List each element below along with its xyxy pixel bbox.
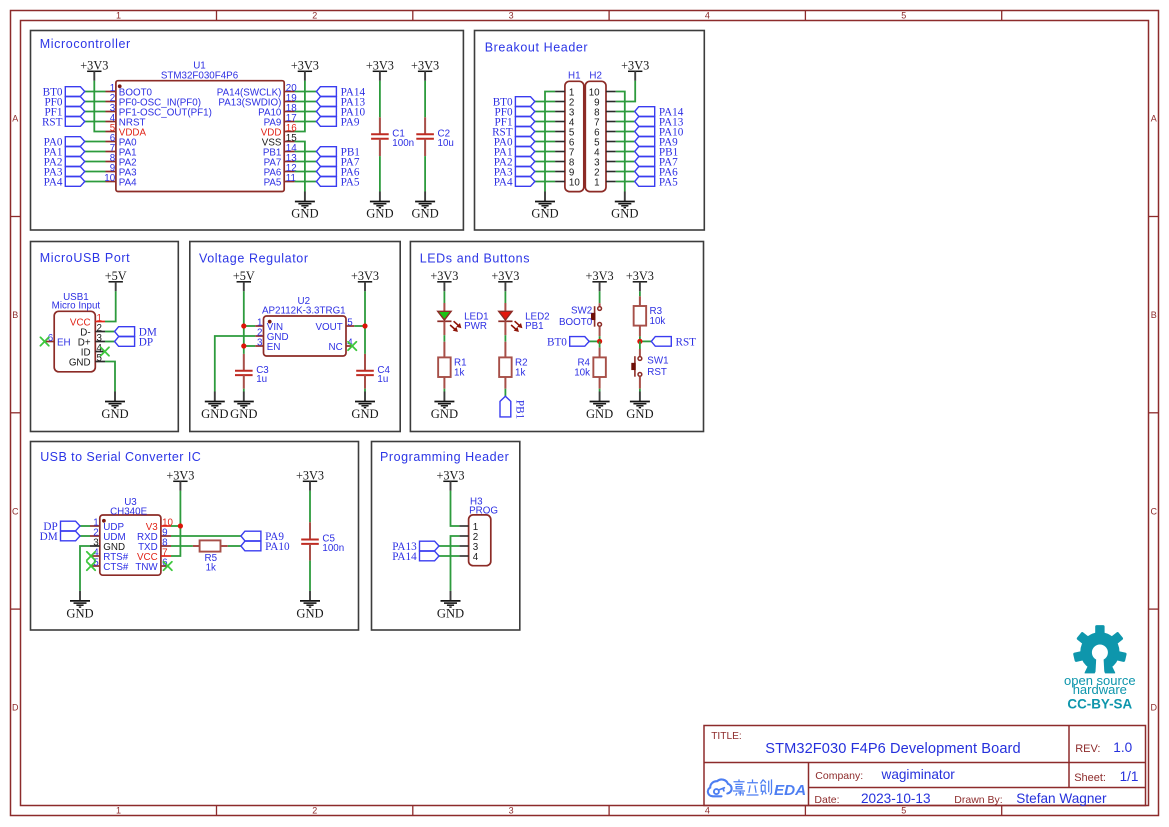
wire DM flag to U3 UDM xyxy=(80,535,90,537)
USB1 pin 2 D- xyxy=(80,323,105,339)
frame column numbers bottom xyxy=(116,806,906,816)
node PA7 port flag xyxy=(635,157,678,169)
svg-text:PA9: PA9 xyxy=(341,117,360,129)
svg-text:10k: 10k xyxy=(650,316,666,327)
node DP port flag xyxy=(115,337,154,349)
wire BT0 flag to U1 xyxy=(85,91,106,93)
sheet title text xyxy=(765,741,1020,757)
wire C2 to ground xyxy=(424,156,426,191)
section box USB to Serial Converter IC xyxy=(31,442,359,631)
svg-text:PA10: PA10 xyxy=(265,541,290,553)
node PA10 port flag xyxy=(241,541,290,553)
junction at VIN xyxy=(241,323,246,328)
USB1 pin 1 VCC xyxy=(70,313,105,329)
svg-text:PA5: PA5 xyxy=(264,178,282,189)
svg-text:H2: H2 xyxy=(589,70,602,81)
node PA9 port flag xyxy=(316,117,359,129)
svg-text:GND: GND xyxy=(201,407,228,421)
svg-text:LEDs and Buttons: LEDs and Buttons xyxy=(420,251,530,265)
svg-text:CH340E: CH340E xyxy=(110,506,147,517)
svg-text:5: 5 xyxy=(901,806,906,816)
U1 pin 6 PA0 xyxy=(106,133,138,149)
ground below H3 xyxy=(437,591,464,621)
U1 pin 16 VDD xyxy=(261,123,298,139)
node PA9 port flag xyxy=(241,531,284,543)
U3 pin 3 GND xyxy=(90,537,125,553)
U3 pin 2 UDM xyxy=(90,527,126,543)
wire H2 to PA5 flag xyxy=(616,181,635,183)
ground below C2 xyxy=(411,192,438,221)
svg-text:1k: 1k xyxy=(206,563,216,574)
svg-text:+5V: +5V xyxy=(105,269,127,283)
svg-text:H1: H1 xyxy=(568,70,581,81)
section box LEDs and Buttons xyxy=(410,242,703,432)
connector H2 xyxy=(585,70,616,191)
wire RST flag to H1 xyxy=(535,131,555,133)
svg-text:PA5: PA5 xyxy=(341,177,360,189)
wire +3V3 rail to V3 and VCC xyxy=(171,491,180,556)
svg-text:1: 1 xyxy=(116,806,121,816)
wire U1 to PA13 flag xyxy=(295,101,317,103)
node PF1 port flag xyxy=(495,117,535,129)
svg-text:RST: RST xyxy=(42,117,63,129)
wire U1 to PA9 flag xyxy=(295,121,317,123)
node PA14 port flag xyxy=(635,107,684,119)
SW2 top lead xyxy=(599,303,601,306)
power +3V3 (LED2) xyxy=(491,269,519,291)
svg-text:2: 2 xyxy=(312,10,317,20)
U1 pin 17 PA9 xyxy=(264,113,297,129)
wire R2 to PB1 flag xyxy=(504,389,506,397)
wire LED1 to R1 xyxy=(443,335,445,342)
connector H3 PROG xyxy=(459,497,498,566)
wire H2 to PA14 flag xyxy=(616,111,635,113)
svg-text:5: 5 xyxy=(347,317,353,328)
wire U1 to PB1 flag xyxy=(295,151,317,153)
wire +3V3 to C2 xyxy=(424,81,426,118)
switch SW1 RST xyxy=(631,356,668,378)
wire PA0 flag to H1 xyxy=(535,141,555,143)
R1 bottom lead xyxy=(443,377,445,389)
wire H2 to PB1 flag xyxy=(616,151,635,153)
U2 pin 3 EN xyxy=(255,337,280,353)
svg-text:Microcontroller: Microcontroller xyxy=(40,37,131,51)
section box MicroUSB Port xyxy=(31,242,179,432)
title block frame xyxy=(704,726,1146,806)
USB1 pin 3 D+ xyxy=(78,333,105,349)
section box Breakout Header xyxy=(475,31,705,231)
svg-text:C: C xyxy=(12,506,19,516)
node DM port flag xyxy=(40,531,80,543)
node BT0 port flag xyxy=(493,97,535,109)
node PA9 port flag xyxy=(635,137,678,149)
wire BT0 flag to junction xyxy=(589,340,599,342)
U2 pin 1 VIN xyxy=(255,317,283,333)
power +3V3 (H2 pin9) xyxy=(621,58,649,80)
Company label and value xyxy=(815,767,955,782)
wire +3V3 to U1 pin16 VDD xyxy=(295,81,305,132)
wire DP flag to U3 UDP xyxy=(80,525,90,527)
wire PA0 flag to U1 xyxy=(85,141,106,143)
ground below C1 xyxy=(366,192,393,221)
svg-text:+3V3: +3V3 xyxy=(621,58,649,72)
resistor R5 1k (horizontal) xyxy=(193,540,228,573)
resistor R3 10k xyxy=(639,296,641,306)
U2 pin 2 GND xyxy=(255,327,288,343)
wire junction to RST flag xyxy=(640,340,651,342)
wire PF1 flag to U1 xyxy=(85,111,106,113)
USB1 pin 6 EH xyxy=(45,333,71,349)
svg-text:GND: GND xyxy=(351,407,378,421)
U1 pin 3 PF1-OSC_OUT(PF1) xyxy=(106,103,212,119)
wire PF0 flag to U1 xyxy=(85,101,106,103)
U1 pin 9 PA3 xyxy=(106,163,138,179)
wire H1 pin1 to ground rail xyxy=(545,92,555,192)
power +3V3 (LED1) xyxy=(430,269,458,291)
SW2 bottom lead xyxy=(599,327,601,337)
svg-text:PB1: PB1 xyxy=(525,321,544,332)
U3 pin 6 TNW xyxy=(135,557,168,573)
svg-text:B: B xyxy=(12,310,18,320)
svg-text:10k: 10k xyxy=(574,367,590,378)
power +3V3 (U1 VDDA) xyxy=(80,58,108,80)
U3 pin 5 CTS# xyxy=(91,557,129,573)
svg-text:SW1: SW1 xyxy=(647,356,668,367)
power +3V3 (C2) xyxy=(411,58,439,80)
node BT0 port flag xyxy=(547,337,589,349)
U3 TNW no-connect X xyxy=(164,562,172,570)
node PA14 port flag xyxy=(392,551,439,563)
op-amp U3 body CH340E xyxy=(100,497,161,575)
node PA3 port flag xyxy=(494,167,535,179)
switch SW2 BOOT0 xyxy=(559,306,602,328)
svg-text:4: 4 xyxy=(473,552,479,563)
U3 CTS# no-connect X xyxy=(87,562,95,570)
capacitor C2 10u xyxy=(416,117,454,156)
node PA13 port flag xyxy=(316,97,365,109)
ground below H2 xyxy=(611,192,638,221)
LED2 cathode lead xyxy=(504,321,506,335)
svg-text:11: 11 xyxy=(286,173,296,184)
svg-text:1: 1 xyxy=(594,178,599,189)
node PA2 port flag xyxy=(494,157,535,169)
svg-text:Programming Header: Programming Header xyxy=(380,450,509,464)
ground left of C3 xyxy=(201,392,228,421)
svg-text:BOOT0: BOOT0 xyxy=(559,317,593,328)
section box Programming Header xyxy=(372,442,520,631)
U1 pin 10 PA4 xyxy=(104,173,137,189)
svg-text:+3V3: +3V3 xyxy=(166,468,194,482)
U3 pin 1 UDP xyxy=(90,517,124,533)
junction at VOUT xyxy=(362,323,367,328)
wire H2 to PA10 flag xyxy=(616,131,635,133)
wire PA4 flag to U1 xyxy=(85,181,106,183)
U1 pin 4 NRST xyxy=(106,113,146,129)
svg-text:Breakout Header: Breakout Header xyxy=(485,40,589,54)
wire PA2 flag to U1 xyxy=(85,161,106,163)
frame row letters right xyxy=(1151,114,1158,713)
ground below R1 xyxy=(431,392,458,421)
node DP port flag xyxy=(43,521,80,533)
resistor R1 1k xyxy=(443,342,445,358)
U3 pin 7 VCC xyxy=(137,547,171,563)
wire U1 to PA6 flag xyxy=(295,171,317,173)
svg-text:GND: GND xyxy=(291,207,318,221)
wire U1 to PA5 flag xyxy=(295,181,317,183)
USB1 pin 4 ID no-connect X xyxy=(101,347,109,355)
op-amp U2 body AP2112K-3.3TRG1 xyxy=(262,296,346,356)
wire PA1 flag to H1 xyxy=(535,151,555,153)
Date label and value xyxy=(814,791,930,806)
svg-text:PA4: PA4 xyxy=(494,177,513,189)
LED LED2 PB1 (red) xyxy=(504,303,506,311)
svg-text:2023-10-13: 2023-10-13 xyxy=(861,791,931,806)
connector USB1 Micro Input xyxy=(52,292,101,372)
node PA1 port flag xyxy=(494,147,535,159)
wire R5 to PA10 flag xyxy=(228,545,241,547)
U1 pin 1 marker dot xyxy=(118,84,122,88)
svg-text:GND: GND xyxy=(626,407,653,421)
node PA6 port flag xyxy=(635,167,678,179)
svg-text:Company:: Company: xyxy=(815,770,863,782)
resistor R4 10k xyxy=(599,348,601,358)
ground below U1 VSS xyxy=(291,192,318,221)
wire V3 stub to rail xyxy=(171,525,180,527)
svg-text:3: 3 xyxy=(509,806,514,816)
node PF0 port flag xyxy=(495,107,535,119)
open source hardware gear logo xyxy=(1070,625,1130,683)
svg-text:BT0: BT0 xyxy=(547,337,567,349)
svg-text:B: B xyxy=(1151,310,1157,320)
svg-text:+3V3: +3V3 xyxy=(291,58,319,72)
power +3V3 (R3) xyxy=(626,269,654,291)
svg-text:4: 4 xyxy=(705,806,710,816)
wire junction to R4 xyxy=(599,341,601,347)
wire PA13 flag to H3 pin3 xyxy=(439,545,459,547)
node PA2 port flag xyxy=(44,157,85,169)
wire R1 to ground xyxy=(443,389,445,392)
svg-text:+3V3: +3V3 xyxy=(351,269,379,283)
U1 pin 15 VSS xyxy=(262,133,297,149)
wire to U2 VIN xyxy=(244,325,255,327)
wire USB1 GND pin to ground xyxy=(105,362,115,392)
svg-text:GND: GND xyxy=(411,207,438,221)
REV label and value xyxy=(1075,740,1132,755)
junction V3 net xyxy=(178,523,183,528)
wire SW1 to ground xyxy=(639,389,641,392)
wire +3V3 to SW2 xyxy=(599,291,601,303)
U1 pin 20 PA14(SWCLK) xyxy=(217,83,297,99)
svg-text:GND: GND xyxy=(230,407,257,421)
svg-text:+3V3: +3V3 xyxy=(366,58,394,72)
op-amp U1 body STM32F030F4P6 xyxy=(116,60,284,191)
junction BOOT0 net xyxy=(597,339,602,344)
svg-text:Voltage Regulator: Voltage Regulator xyxy=(199,251,309,265)
svg-text:REV:: REV: xyxy=(1075,743,1100,755)
wire +5V rail down through VIN and EN to C3 xyxy=(243,291,245,354)
title block TITLE label xyxy=(711,731,742,742)
node PA4 port flag xyxy=(494,177,535,189)
wire USB1 D+ to DP flag xyxy=(105,341,115,343)
wire U1 to PA14 flag xyxy=(295,91,317,93)
U2 pin 5 VOUT xyxy=(315,317,354,333)
wire +3V3 to C5 xyxy=(309,491,311,522)
node PF1 port flag xyxy=(44,107,84,119)
wire H2 to PA9 flag xyxy=(616,141,635,143)
svg-text:+3V3: +3V3 xyxy=(296,468,324,482)
wire PF1 flag to H1 xyxy=(535,121,555,123)
U3 pin 9 RXD xyxy=(137,527,171,543)
JLC EDA logo chinese characters xyxy=(733,779,772,795)
svg-text:1u: 1u xyxy=(256,374,267,385)
svg-text:STM32F030 F4P6 Development Boa: STM32F030 F4P6 Development Board xyxy=(765,741,1020,757)
wire H3 pin2 to ground xyxy=(451,536,460,591)
U3 pin 4 RTS# xyxy=(91,547,129,563)
wire RST flag to U1 xyxy=(85,121,106,123)
open source hardware logo text xyxy=(1064,673,1136,712)
node PB1 port flag xyxy=(316,147,359,159)
svg-text:10: 10 xyxy=(104,173,115,184)
U1 pin 12 PA6 xyxy=(264,163,297,179)
wire +3V3 to R3 xyxy=(639,291,641,296)
node PA0 port flag xyxy=(44,137,85,149)
wire U1 to PA7 flag xyxy=(295,161,317,163)
svg-text:3: 3 xyxy=(257,337,263,348)
svg-text:100n: 100n xyxy=(322,543,344,554)
svg-text:DP: DP xyxy=(139,337,153,349)
node PA4 port flag xyxy=(44,177,85,189)
USB1 pin 5 GND xyxy=(69,353,105,369)
U3 pin 1 marker dot xyxy=(102,519,106,523)
svg-text:C: C xyxy=(1151,506,1158,516)
svg-text:EN: EN xyxy=(267,342,281,353)
svg-text:+5V: +5V xyxy=(233,269,255,283)
wire C1 to ground xyxy=(379,156,381,191)
power +3V3 (U1 VDD) xyxy=(291,58,319,80)
power +3V3 (C1) xyxy=(366,58,394,80)
node PA0 port flag xyxy=(494,137,535,149)
SW1 top lead xyxy=(639,349,641,356)
svg-text:+3V3: +3V3 xyxy=(491,269,519,283)
svg-text:PA4: PA4 xyxy=(119,178,137,189)
svg-text:GND: GND xyxy=(66,606,93,620)
svg-text:TITLE:: TITLE: xyxy=(711,731,742,742)
wire H2 to PA13 flag xyxy=(616,121,635,123)
USB1 pin 6 EH no-connect X xyxy=(40,337,48,345)
svg-text:+3V3: +3V3 xyxy=(436,468,464,482)
junction at EN xyxy=(241,343,246,348)
node PA13 port flag xyxy=(392,541,439,553)
wire +3V3 to U1 pin5 xyxy=(94,81,105,132)
svg-text:PA14: PA14 xyxy=(392,551,417,563)
LED LED1 PWR (green) xyxy=(443,303,445,311)
wire +3V3 to C1 xyxy=(379,81,381,118)
wire USB1 D- to DM flag xyxy=(105,331,115,333)
power +3V3 (SW2) xyxy=(586,269,614,291)
section box Voltage Regulator xyxy=(190,242,400,432)
wire C3 to ground xyxy=(243,389,245,392)
svg-text:PB1: PB1 xyxy=(513,400,525,419)
frame column numbers top xyxy=(116,10,906,20)
svg-text:GND: GND xyxy=(531,207,558,221)
power +3V3 (C5) xyxy=(296,468,324,490)
wire U3 RXD to PA9 flag xyxy=(171,535,241,537)
ground below R4 xyxy=(586,392,613,421)
resistor R2 1k xyxy=(504,342,506,358)
svg-text:CTS#: CTS# xyxy=(103,562,129,573)
svg-text:Drawn By:: Drawn By: xyxy=(954,794,1002,806)
svg-text:10u: 10u xyxy=(438,138,454,149)
connector H1 xyxy=(555,70,584,191)
svg-text:1.0: 1.0 xyxy=(1113,740,1132,755)
svg-text:wagiminator: wagiminator xyxy=(881,767,956,782)
svg-text:STM32F030F4P6: STM32F030F4P6 xyxy=(161,70,239,81)
Sheet label and value xyxy=(1074,769,1138,784)
capacitor C4 1u xyxy=(356,354,390,389)
wire BT0 flag to H1 xyxy=(535,101,555,103)
ground below USB1 xyxy=(101,392,128,421)
node RST port flag xyxy=(492,127,535,139)
U3 pin 10 V3 xyxy=(146,517,174,533)
wire H2 to PA6 flag xyxy=(616,171,635,173)
wire PA4 flag to H1 xyxy=(535,181,555,183)
svg-text:GND: GND xyxy=(69,358,91,369)
R3 bottom lead xyxy=(639,326,641,337)
svg-text:2: 2 xyxy=(312,806,317,816)
svg-text:1/1: 1/1 xyxy=(1120,769,1139,784)
power +5V (USB1 VCC) xyxy=(105,269,127,291)
ground below C3 xyxy=(230,392,257,421)
svg-text:Sheet:: Sheet: xyxy=(1074,772,1106,784)
svg-text:USB to Serial Converter IC: USB to Serial Converter IC xyxy=(40,450,201,464)
wire +3V3 to H3 pin1 xyxy=(451,491,460,526)
svg-text:+3V3: +3V3 xyxy=(586,269,614,283)
U2 pin 1 marker dot xyxy=(268,320,272,324)
U1 pin 2 PF0-OSC_IN(PF0) xyxy=(106,93,202,109)
svg-text:CC-BY-SA: CC-BY-SA xyxy=(1067,697,1132,712)
svg-text:EH: EH xyxy=(57,338,71,349)
wire PA1 flag to U1 xyxy=(85,151,106,153)
svg-text:100n: 100n xyxy=(392,138,414,149)
frame row letters left xyxy=(12,114,19,713)
svg-text:D: D xyxy=(12,703,19,713)
power +3V3 (U2 VOUT) xyxy=(351,269,379,291)
svg-text:GND: GND xyxy=(611,207,638,221)
wire PA3 flag to U1 xyxy=(85,171,106,173)
ground below H1 xyxy=(531,192,558,221)
U1 pin 14 PB1 xyxy=(263,143,297,159)
capacitor C1 100n xyxy=(371,117,414,156)
svg-text:1k: 1k xyxy=(515,367,525,378)
svg-text:10: 10 xyxy=(569,178,580,189)
svg-text:5: 5 xyxy=(901,10,906,20)
node PA10 port flag xyxy=(316,107,365,119)
R4 bottom lead xyxy=(599,377,601,389)
svg-text:GND: GND xyxy=(431,407,458,421)
power +3V3 (H3) xyxy=(436,468,464,490)
Drawn By label and value xyxy=(954,791,1107,806)
U1 pin 5 VDDA xyxy=(106,123,147,139)
wire LED2 to R2 xyxy=(504,335,506,342)
ground below U3 xyxy=(66,591,93,621)
svg-text:GND: GND xyxy=(586,407,613,421)
wire PA2 flag to H1 xyxy=(535,161,555,163)
node RST port flag xyxy=(651,337,696,349)
svg-text:+3V3: +3V3 xyxy=(80,58,108,72)
svg-text:GND: GND xyxy=(101,407,128,421)
U3 RTS# no-connect X xyxy=(87,552,95,560)
U1 pin 18 PA10 xyxy=(258,103,297,119)
